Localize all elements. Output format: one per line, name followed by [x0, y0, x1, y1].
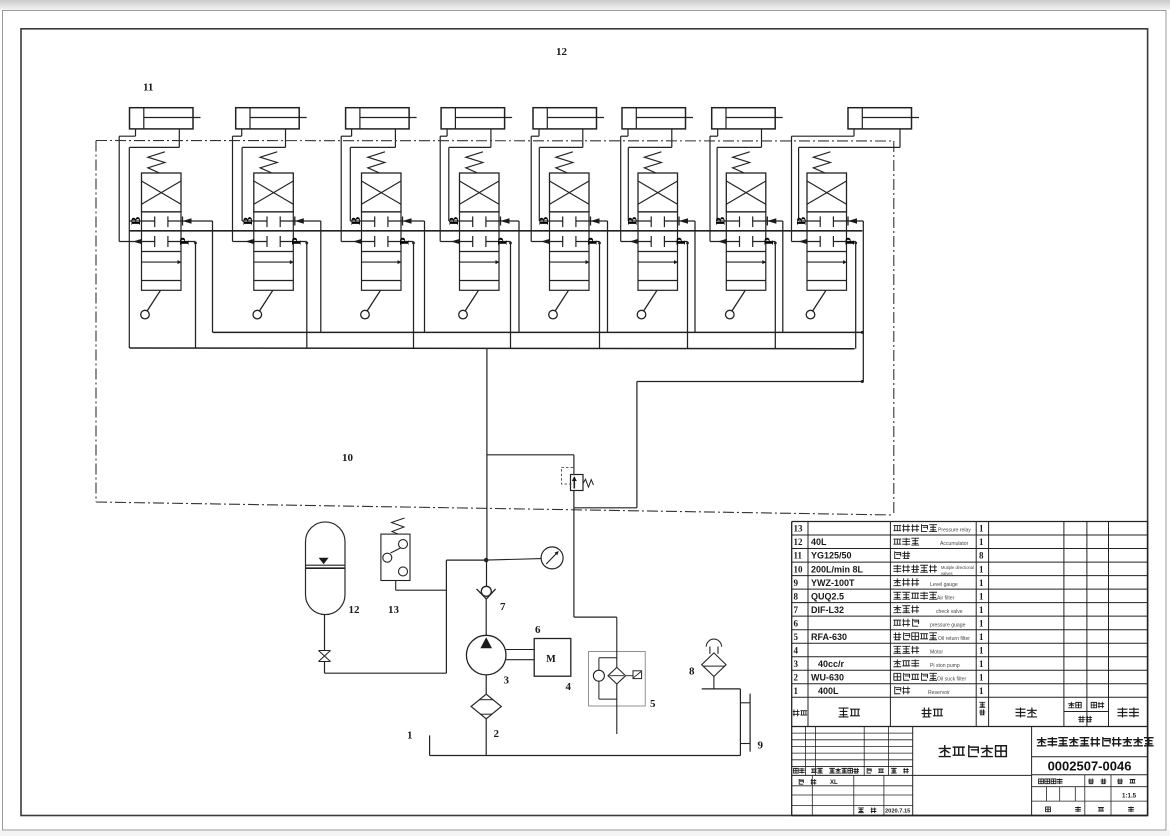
valve 3 port B label and line [349, 217, 375, 225]
valve 3 body and lower positions [362, 212, 402, 290]
valve 1 body and lower positions [142, 212, 182, 290]
svg-text:P: P [762, 237, 776, 245]
svg-text:8: 8 [794, 591, 799, 601]
cylinder 8 (item 11) [848, 108, 919, 129]
valve 6 port B label and line [625, 217, 651, 225]
valve 4 crossed position box [460, 173, 500, 212]
svg-text:400L: 400L [818, 686, 839, 696]
pressure gauge line [486, 559, 541, 561]
cylinder 4 (item 11) [441, 108, 512, 129]
svg-text:Pressure relay: Pressure relay [938, 528, 971, 534]
svg-text:B: B [625, 217, 639, 225]
svg-text:2: 2 [794, 672, 799, 682]
cylinder 3 (item 11) [346, 108, 417, 129]
wire: valve 7 T port to return bus [753, 217, 783, 333]
wire: cylinder 5 cap-end port to valve A [531, 129, 539, 242]
bus line A (between valve rows) [130, 230, 863, 232]
wire: cylinder 8 rod-end port to valve B [799, 129, 900, 221]
bus line B (return manifold) [213, 331, 863, 333]
svg-text:YG125/50: YG125/50 [811, 551, 852, 561]
wire: valve 8 T port to return bus [833, 217, 863, 382]
svg-text:3: 3 [794, 659, 799, 669]
wire: valve 2 P port to pressure bus [280, 237, 308, 348]
air filter 8 [702, 639, 726, 689]
wire: cylinder 1 cap-end port to valve A [119, 129, 135, 242]
valve 3 crossed position box [362, 173, 402, 212]
wire: valve 5 P port to pressure bus [576, 237, 601, 348]
cylinder 1 (item 11) [130, 108, 201, 129]
valve 5 spring [556, 152, 573, 173]
svg-text:DIF-L32: DIF-L32 [811, 605, 844, 615]
svg-text:2: 2 [494, 728, 500, 740]
svg-text:P: P [177, 237, 191, 245]
svg-text:12: 12 [349, 604, 361, 616]
chain-line enclosure left [95, 141, 97, 503]
line check valve to pump [485, 599, 487, 635]
valve 1 manual lever [141, 290, 161, 319]
relief pilot branch [487, 454, 574, 456]
valve 2 port A arrow [233, 239, 268, 245]
valve 6 body and lower positions [638, 212, 678, 290]
wire: valve 6 T port to return bus [664, 217, 695, 333]
cylinder 2 (item 11) [236, 108, 307, 129]
valve 6 port A arrow [621, 239, 652, 245]
svg-text:6: 6 [535, 624, 541, 636]
svg-text:9: 9 [758, 740, 764, 752]
svg-text:7: 7 [794, 605, 799, 615]
valve 4 manual lever [459, 290, 479, 319]
valve 2 body and lower positions [254, 212, 294, 290]
valve 2 port B label and line [241, 217, 267, 225]
svg-text:P: P [397, 237, 411, 245]
valve 7 body and lower positions [726, 212, 766, 290]
svg-text:1: 1 [979, 686, 984, 696]
svg-text:M: M [546, 654, 556, 665]
valve 7 port B label and line [714, 217, 740, 225]
junction dot [484, 558, 488, 562]
valve 6 port ticks [651, 216, 664, 247]
svg-text:5: 5 [794, 632, 799, 642]
valve 3 spring [368, 152, 385, 173]
valve 4 port A arrow [440, 239, 473, 245]
wire: cylinder 5 rod-end port to valve B [539, 129, 583, 221]
relief valve [562, 467, 594, 490]
svg-text:B: B [349, 217, 363, 225]
svg-text:B: B [714, 217, 728, 225]
BOM header row [793, 702, 1138, 721]
wire: cylinder 6 rod-end port to valve B [628, 129, 672, 221]
wire: cylinder 1 rod-end port to valve B [129, 129, 179, 348]
svg-text:QUQ2.5: QUQ2.5 [811, 591, 844, 601]
svg-text:1: 1 [979, 564, 984, 574]
chain-line enclosure top [96, 140, 894, 143]
svg-text:Pi ston pump: Pi ston pump [930, 663, 960, 669]
svg-text:4: 4 [794, 645, 799, 655]
svg-text:XL: XL [830, 780, 838, 786]
valve 8 port B label and line [794, 217, 820, 225]
svg-text:Accumulator: Accumulator [940, 541, 969, 547]
svg-text:Oil return filter: Oil return filter [938, 636, 970, 642]
svg-text:YWZ-100T: YWZ-100T [811, 578, 855, 588]
title block grid [792, 727, 1148, 816]
svg-text:1: 1 [979, 605, 984, 615]
svg-text:B: B [794, 217, 808, 225]
svg-text:1: 1 [794, 686, 799, 696]
relief drain line down to return filter [573, 491, 575, 618]
pump 3 [466, 635, 506, 675]
pressure relay 13 [381, 518, 447, 590]
svg-text:8: 8 [979, 551, 984, 561]
valve 1 port B label and line [129, 217, 155, 225]
valve 2 crossed position box [254, 173, 293, 212]
valve 4 port ticks [473, 216, 486, 247]
svg-text:4: 4 [566, 681, 572, 693]
svg-text:Mutiple directional: Mutiple directional [941, 565, 974, 570]
junction dots on return bus [861, 331, 864, 334]
svg-text:RFA-630: RFA-630 [811, 632, 847, 642]
svg-text:1: 1 [407, 730, 413, 742]
valve 7 port A arrow [710, 239, 740, 245]
svg-text:1: 1 [979, 578, 984, 588]
valve 5 port A arrow [531, 239, 563, 245]
wire: valve 2 T port to return bus [280, 217, 321, 333]
return filter 5 assembly [589, 617, 646, 734]
wire: cylinder 7 rod-end port to valve B [717, 129, 761, 221]
coupling shaft [506, 649, 534, 651]
BOM table grid [792, 522, 1148, 727]
chain-line enclosure right [893, 141, 895, 515]
accumulator supply line [325, 672, 447, 674]
cylinder 5 (item 11) [533, 108, 604, 129]
svg-text:1: 1 [979, 618, 984, 628]
svg-text:1: 1 [979, 672, 984, 682]
svg-text:8: 8 [689, 666, 695, 678]
wire: valve 1 P port to pressure bus [168, 237, 197, 348]
valve 5 manual lever [549, 290, 569, 319]
valve 6 crossed position box [638, 173, 678, 212]
valve 5 crossed position box [550, 173, 590, 212]
svg-text:B: B [129, 217, 143, 225]
wire: cylinder 3 rod-end port to valve B [350, 129, 395, 221]
pressure gauge [541, 547, 563, 569]
svg-text:1: 1 [979, 659, 984, 669]
wire: cylinder 4 rod-end port to valve B [449, 129, 491, 221]
valve 7 spring [733, 152, 750, 173]
svg-text:1:1.5: 1:1.5 [1122, 793, 1137, 800]
level gauge 9 [740, 694, 750, 752]
svg-text:0002507-0046: 0002507-0046 [1048, 759, 1132, 774]
tank bottom line (item 1) [430, 755, 741, 757]
valve 5 body and lower positions [550, 212, 590, 290]
svg-text:P: P [495, 237, 509, 245]
valve 5 port ticks [563, 216, 576, 247]
svg-text:1: 1 [979, 524, 984, 534]
svg-text:200L/min 8L: 200L/min 8L [811, 564, 864, 574]
cylinder 6 (item 11) [622, 108, 693, 129]
svg-text:Reservoir: Reservoir [928, 690, 950, 696]
svg-text:13: 13 [388, 604, 400, 616]
svg-text:5: 5 [650, 698, 656, 710]
svg-text:11: 11 [794, 551, 803, 561]
wire: valve 7 P port to pressure bus [753, 237, 777, 348]
svg-text:12: 12 [794, 537, 804, 547]
svg-text:1: 1 [979, 645, 984, 655]
wire: cylinder 8 cap-end port to valve A [792, 129, 855, 242]
svg-text:Motor: Motor [930, 649, 943, 655]
wire: cylinder 7 cap-end port to valve A [710, 129, 718, 242]
svg-text:10: 10 [342, 452, 354, 464]
valve 3 manual lever [361, 290, 381, 319]
valve 2 manual lever [253, 290, 273, 319]
svg-text:1: 1 [979, 632, 984, 642]
return line from valve bank [574, 507, 637, 509]
svg-text:12: 12 [556, 46, 568, 58]
BOM rows text [794, 524, 985, 696]
svg-text:Level gauge: Level gauge [930, 582, 958, 588]
svg-text:Air filter: Air filter [937, 595, 955, 601]
accumulator shutoff valve [319, 615, 331, 674]
bus line C (pressure manifold) [130, 347, 855, 350]
svg-text:check valve: check valve [936, 609, 963, 615]
wire: valve 1 T port to return bus [168, 217, 213, 333]
suction filter 2 [471, 675, 501, 719]
drawing title 液压原理图 [939, 746, 950, 757]
valve 4 port B label and line [447, 217, 473, 225]
svg-text:10: 10 [794, 564, 804, 574]
valve 4 body and lower positions [460, 212, 500, 290]
valve 8 crossed position box [807, 173, 847, 212]
valve 1 port A arrow [119, 239, 155, 245]
svg-text:WU-630: WU-630 [811, 672, 844, 682]
svg-text:B: B [241, 217, 255, 225]
wire: cylinder 2 cap-end port to valve A [233, 129, 242, 242]
valve 1 port ticks [155, 216, 168, 247]
chain-line enclosure bottom [96, 502, 894, 515]
title block small texts [794, 768, 1137, 814]
svg-text:13: 13 [794, 524, 804, 534]
svg-text:9: 9 [794, 578, 799, 588]
svg-text:P: P [674, 237, 688, 245]
valve 8 port A arrow [792, 239, 821, 245]
svg-text:1: 1 [979, 591, 984, 601]
svg-text:1: 1 [979, 537, 984, 547]
wire: valve 8 P port to pressure bus [833, 237, 857, 349]
valve 5 port B label and line [537, 217, 563, 225]
valve 3 port A arrow [341, 239, 375, 245]
wire: valve 4 P port to pressure bus [486, 237, 512, 348]
wire: valve 5 T port to return bus [576, 217, 608, 333]
wire: valve 4 T port to return bus [486, 217, 519, 333]
wire: cylinder 4 cap-end port to valve A [440, 129, 447, 242]
valve 7 manual lever [726, 290, 746, 319]
wire: cylinder 3 cap-end port to valve A [341, 129, 351, 242]
svg-text:3: 3 [504, 675, 510, 687]
wire: valve 6 P port to pressure bus [664, 237, 688, 348]
cylinder 7 (item 11) [712, 108, 783, 129]
valve 6 spring [644, 152, 661, 173]
valve 6 manual lever [637, 290, 657, 319]
svg-text:P: P [585, 237, 599, 245]
svg-text:Oil suck filter: Oil suck filter [937, 676, 966, 682]
valve 8 spring [813, 152, 830, 173]
svg-text:pressure guage: pressure guage [930, 622, 966, 628]
valve 2 spring [260, 152, 277, 173]
tank top and right wall [702, 688, 741, 690]
valve 8 port ticks [820, 216, 833, 247]
valve 4 spring [466, 152, 483, 173]
motor 4 [534, 639, 571, 677]
wire: cylinder 2 rod-end port to valve B [242, 129, 285, 221]
valve 8 manual lever [806, 290, 826, 319]
svg-text:2020.7.15: 2020.7.15 [885, 809, 910, 815]
svg-text:7: 7 [500, 601, 506, 613]
svg-text:11: 11 [143, 82, 153, 94]
svg-text:P: P [290, 237, 304, 245]
check valve 7 [477, 586, 496, 599]
valve 3 port ticks [375, 216, 388, 247]
wire: cylinder 6 cap-end port to valve A [621, 129, 628, 242]
valve 7 crossed position box [726, 173, 766, 212]
valve 1 crossed position box [142, 173, 182, 212]
svg-text:valves: valves [941, 571, 953, 576]
svg-text:B: B [537, 217, 551, 225]
suction line to tank [485, 719, 487, 756]
main pressure feed line [486, 348, 488, 560]
svg-text:40cc/r: 40cc/r [818, 659, 845, 669]
valve 8 body and lower positions [807, 212, 847, 290]
valve 7 port ticks [740, 216, 753, 247]
company name [1038, 738, 1046, 746]
valve 1 spring [148, 152, 165, 173]
svg-text:6: 6 [794, 618, 799, 628]
wire: valve 3 P port to pressure bus [388, 237, 415, 348]
valve 2 port ticks [267, 216, 280, 247]
svg-text:40L: 40L [811, 537, 827, 547]
wire: valve 3 T port to return bus [388, 217, 425, 333]
svg-text:B: B [447, 217, 461, 225]
accumulator 12 [306, 522, 346, 615]
